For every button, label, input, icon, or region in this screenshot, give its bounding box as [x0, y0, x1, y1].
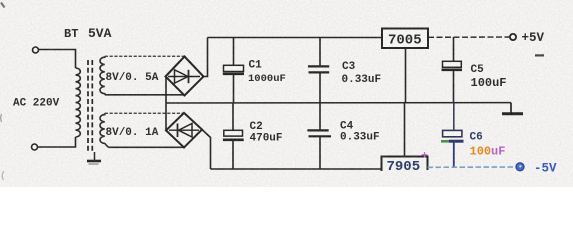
- label BT 5VA: [64, 26, 112, 41]
- capacitor C1: [223, 38, 244, 104]
- wire: 7905 output rail to -5V: [428, 166, 514, 168]
- wire: winding2 top to bridge2 AC+: [105, 112, 184, 114]
- capacitor C3: [308, 38, 329, 104]
- scan noise overlay: [0, 0, 573, 187]
- transformer T secondary winding 1: [100, 56, 105, 95]
- capacitor C6: [441, 103, 464, 168]
- bridge rectifier D2: [166, 113, 202, 148]
- terminal: AC input top: [33, 47, 39, 53]
- wire: top rail (+): [208, 37, 383, 39]
- bridge rectifier D1: [166, 57, 204, 96]
- terminal: +5V output: [510, 34, 516, 40]
- wire: 7805 GND pin: [405, 48, 407, 103]
- regulator U1 7805: [382, 29, 428, 49]
- wire: top rail 7805 output to +5V: [428, 36, 510, 38]
- artifact: edge marks: [1, 3, 5, 181]
- terminal: -5V output: [516, 163, 524, 171]
- artifact: purple plus: [422, 152, 428, 158]
- wire: common rail (0V): [166, 102, 511, 104]
- wire: bridge1 + output to top rail: [204, 38, 208, 77]
- artifact: minus dash: [535, 54, 544, 56]
- capacitor C4: [307, 103, 331, 169]
- wire: winding1 bottom to bridge1 AC-: [105, 94, 185, 96]
- terminal: AC input bottom: [32, 144, 38, 150]
- wire: bridge2 - output down: [202, 130, 211, 170]
- wire: AC top lead: [39, 50, 76, 69]
- ground: output common ground: [502, 103, 523, 114]
- wire: winding1 top to bridge1 AC+: [105, 55, 185, 57]
- ground: transformer core ground: [87, 152, 101, 164]
- transformer core: [88, 60, 92, 152]
- regulator U2 7905: [382, 157, 428, 172]
- capacitor C5: [442, 37, 463, 103]
- capacitor C2: [223, 103, 244, 169]
- transformer T primary winding: [76, 68, 81, 137]
- wire: AC bottom lead: [38, 137, 76, 147]
- wire: 7905 GND pin: [404, 103, 406, 157]
- background paper: [0, 0, 573, 187]
- wire: common vertical bridge1- to bridge2+: [165, 77, 167, 131]
- wire: bottom rail (-): [211, 168, 382, 170]
- wire: winding2 bottom to bridge2 AC-: [109, 146, 185, 148]
- transformer T secondary winding 2: [100, 113, 109, 147]
